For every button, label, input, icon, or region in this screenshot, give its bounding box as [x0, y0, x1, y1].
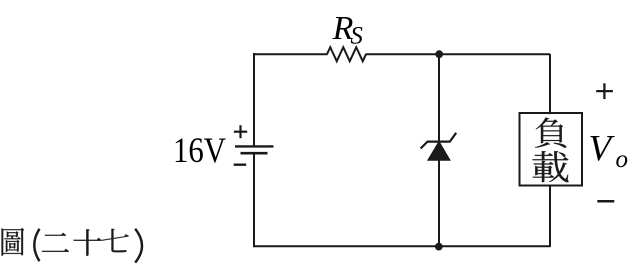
svg-text:V: V: [589, 129, 616, 170]
caption char 七: [101, 229, 129, 252]
battery V1 top plate (long, +): [235, 145, 274, 147]
wire top rail left segment: [254, 53, 328, 55]
battery plus sign: [234, 131, 247, 133]
middle wire upper (junction to zener cathode): [438, 54, 440, 142]
wire left side lower (battery bottom to bottom rail): [253, 153, 255, 247]
middle wire lower (zener anode to bottom junction): [438, 160, 440, 247]
load box char 負: [535, 118, 566, 148]
caption char 十: [73, 229, 101, 255]
caption char 二: [42, 233, 69, 252]
bottom wire: [254, 245, 550, 247]
svg-text:S: S: [350, 23, 363, 50]
battery V1 bottom plate (short, -): [241, 152, 268, 155]
wire top rail right segment: [366, 53, 551, 55]
right wire lower segment: [549, 185, 551, 247]
output minus sign: [597, 200, 614, 203]
svg-text:16V: 16V: [173, 130, 226, 170]
junction dot bottom: [435, 243, 443, 251]
right wire upper segment: [549, 54, 551, 114]
load box: [520, 113, 583, 186]
caption closing parenthesis: [135, 229, 142, 263]
zener diode cathode bar with bent ends: [421, 133, 457, 149]
battery minus sign: [234, 163, 247, 165]
junction dot top: [435, 50, 443, 58]
output plus sign: [596, 90, 613, 92]
caption char 圖: [2, 228, 25, 256]
zener diode triangle (anode): [428, 142, 450, 161]
caption opening parenthesis: [34, 229, 39, 261]
svg-text:o: o: [616, 146, 629, 173]
wire left side upper (to battery top plate): [253, 53, 255, 146]
load box char 載: [532, 151, 568, 182]
resistor RS zigzag: [327, 47, 366, 61]
